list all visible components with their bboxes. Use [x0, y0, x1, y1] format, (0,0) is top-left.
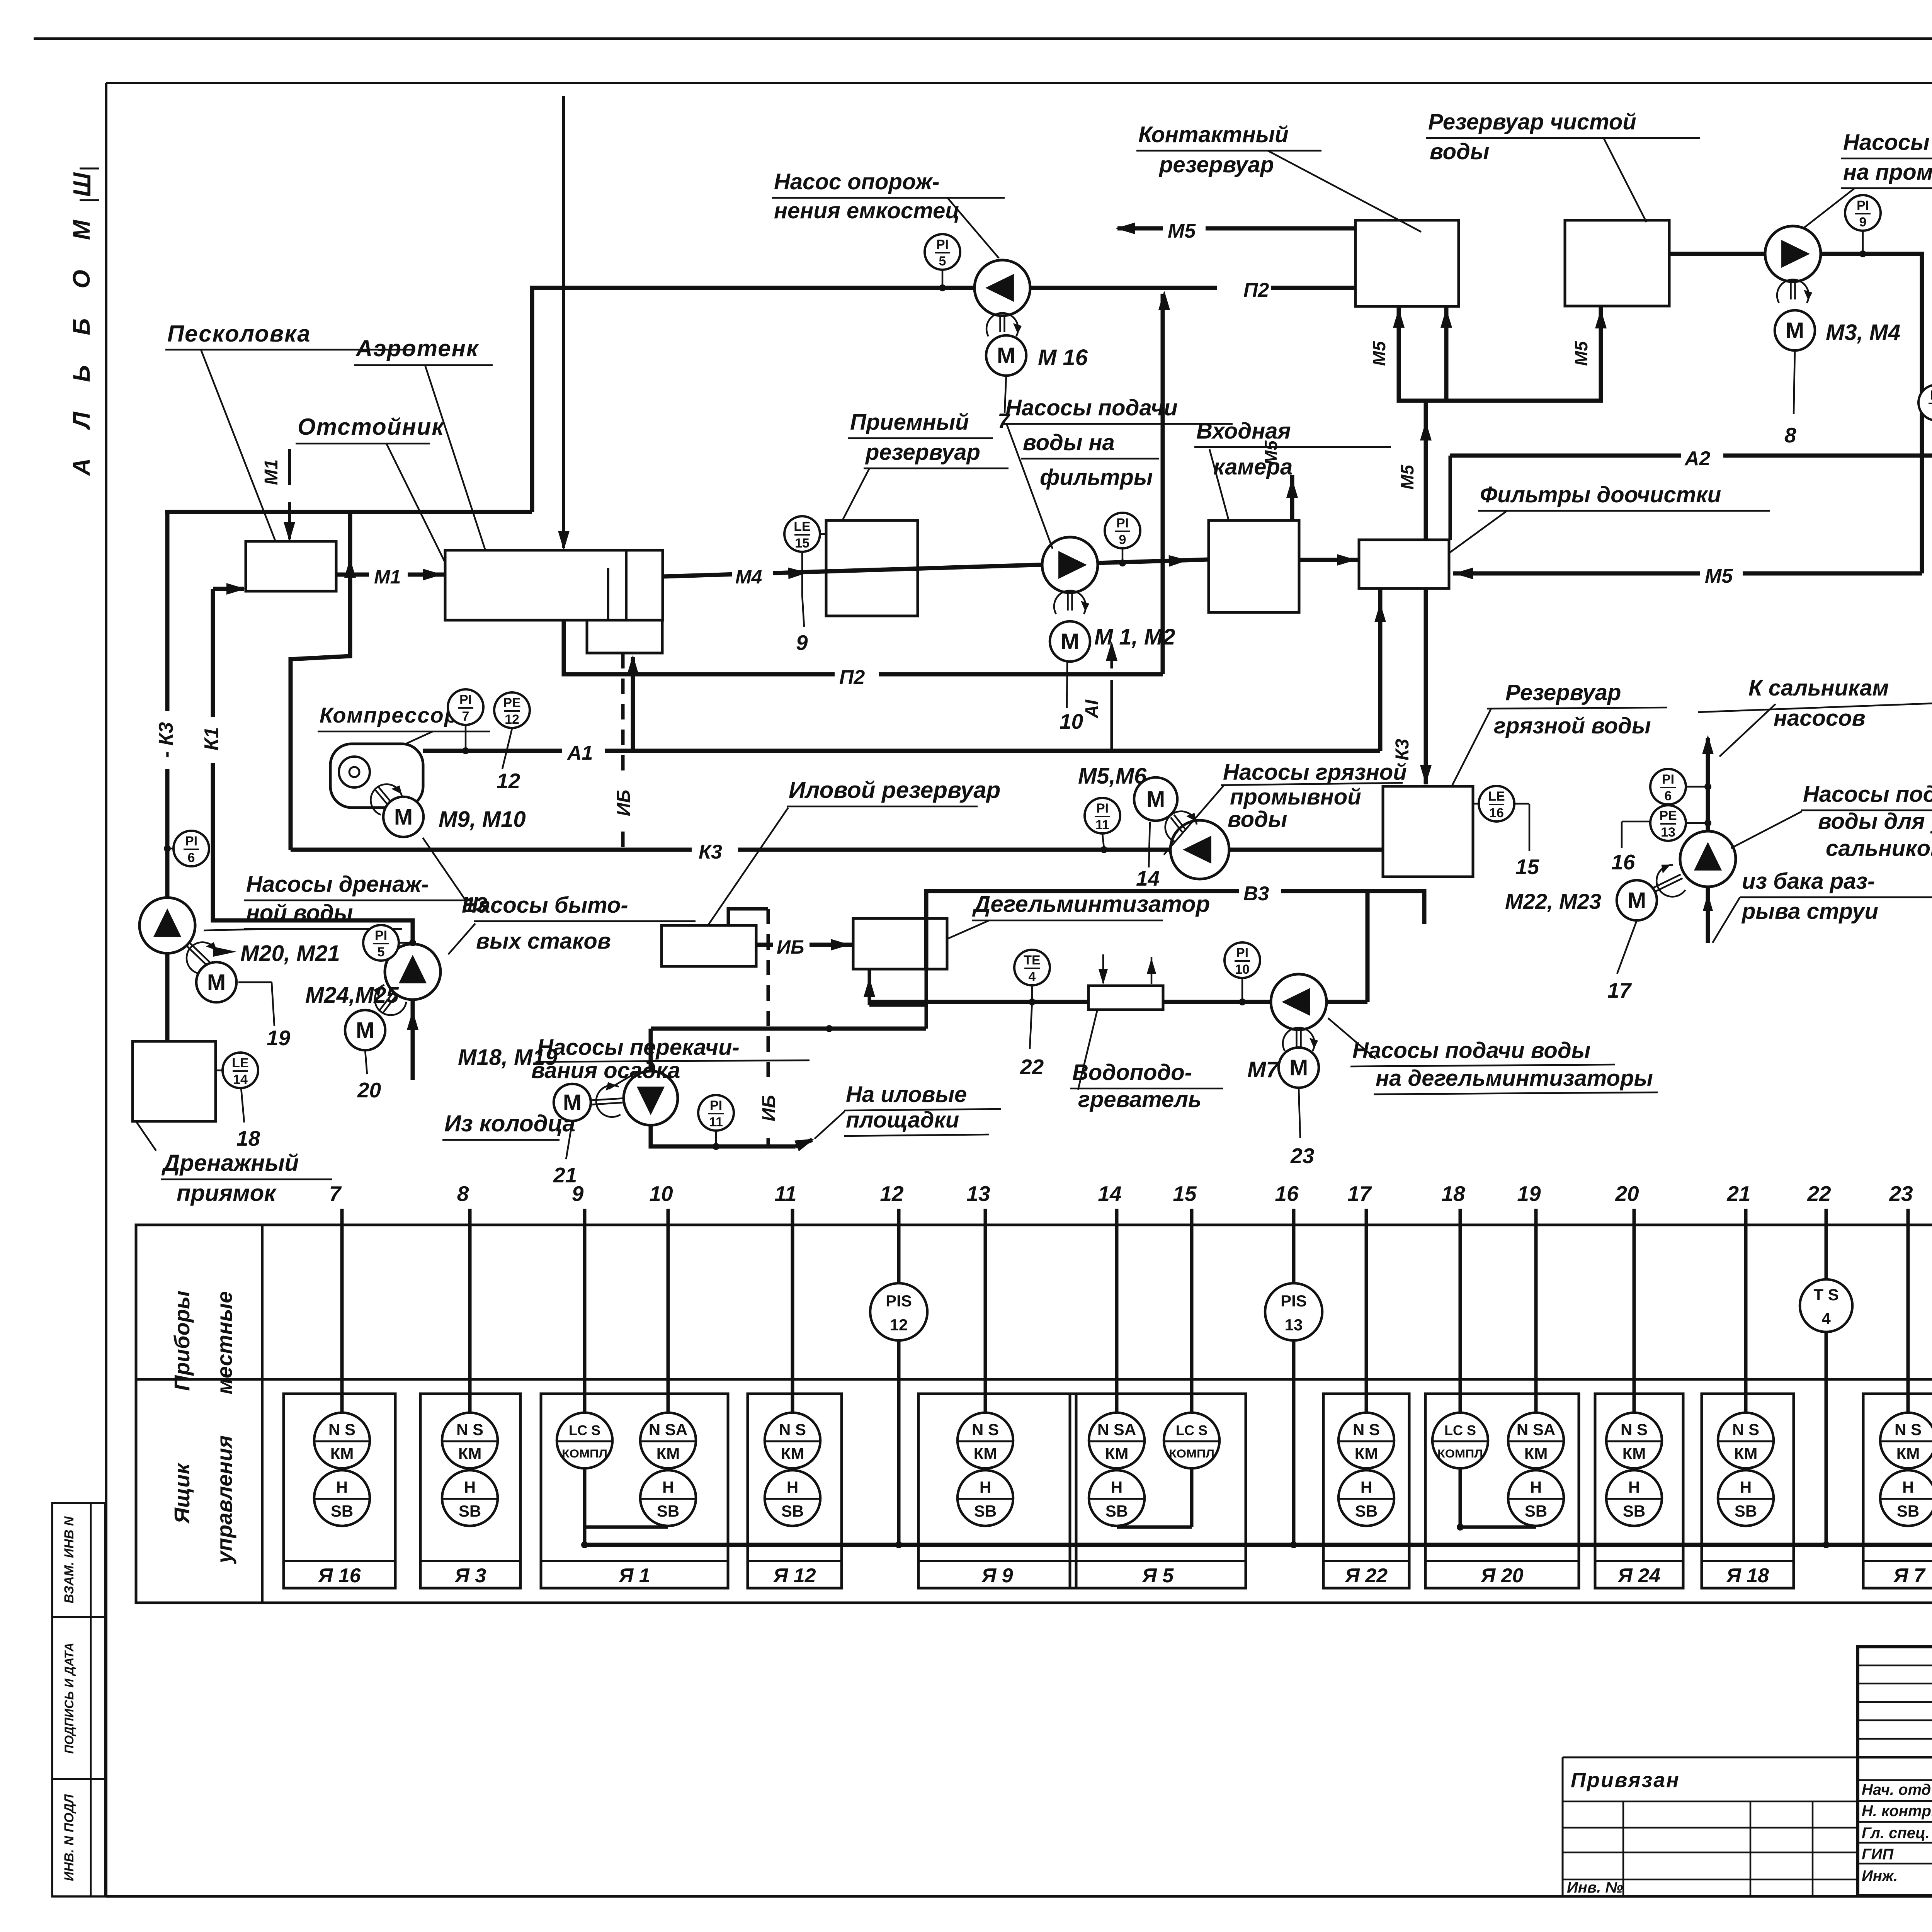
svg-text:Насосы подачи воды: Насосы подачи воды: [1843, 130, 1932, 155]
svg-text:Я 24: Я 24: [1617, 1565, 1660, 1587]
svg-text:ИНВ. N ПОДЛ: ИНВ. N ПОДЛ: [62, 1794, 77, 1881]
svg-text:Компрессор: Компрессор: [320, 703, 458, 727]
svg-text:PI: PI: [936, 237, 949, 252]
svg-text:М 16: М 16: [1038, 345, 1088, 370]
svg-text:ГИП: ГИП: [1862, 1846, 1894, 1863]
svg-text:9: 9: [1119, 532, 1126, 547]
svg-text:Н: Н: [1530, 1478, 1542, 1496]
svg-text:12: 12: [497, 769, 520, 793]
svg-text:фильтры: фильтры: [1040, 465, 1153, 490]
svg-text:М5,М6: М5,М6: [1078, 764, 1147, 789]
svg-text:воды для уплотнения: воды для уплотнения: [1818, 809, 1932, 834]
svg-text:9: 9: [796, 631, 808, 655]
svg-text:М 1, М2: М 1, М2: [1094, 624, 1175, 650]
svg-text:Н: Н: [787, 1478, 798, 1496]
svg-text:PI: PI: [459, 692, 472, 707]
svg-text:PIS: PIS: [886, 1292, 912, 1310]
svg-text:М: М: [394, 804, 413, 830]
svg-text:Я 3: Я 3: [454, 1565, 486, 1587]
svg-text:Песколовка: Песколовка: [167, 321, 311, 347]
svg-text:Н. контр.: Н. контр.: [1862, 1803, 1932, 1820]
svg-text:21: 21: [1726, 1182, 1750, 1206]
svg-text:М: М: [1786, 318, 1804, 343]
svg-text:греватель: греватель: [1078, 1087, 1201, 1112]
svg-text:М: М: [563, 1090, 582, 1115]
svg-text:М5: М5: [1705, 565, 1733, 587]
svg-text:SB: SB: [1105, 1502, 1128, 1520]
svg-text:N S: N S: [1621, 1420, 1648, 1439]
svg-text:Я 7: Я 7: [1893, 1565, 1925, 1587]
svg-text:SB: SB: [657, 1502, 679, 1520]
svg-text:Входная: Входная: [1196, 418, 1291, 444]
svg-text:SB: SB: [1897, 1502, 1919, 1520]
svg-text:Водоподо-: Водоподо-: [1072, 1060, 1192, 1085]
svg-text:Иловой резервуар: Иловой резервуар: [789, 777, 1000, 803]
svg-text:Приборы: Приборы: [170, 1291, 194, 1391]
svg-text:18: 18: [236, 1126, 260, 1150]
svg-text:Отстойник: Отстойник: [298, 414, 444, 440]
svg-text:Я 1: Я 1: [618, 1565, 650, 1587]
svg-text:15: 15: [1173, 1182, 1197, 1206]
svg-text:М: М: [1146, 787, 1165, 812]
svg-text:N SА: N SА: [649, 1420, 687, 1439]
svg-text:20: 20: [1615, 1182, 1639, 1206]
svg-text:М3, М4: М3, М4: [1826, 320, 1900, 345]
svg-text:вых стаков: вых стаков: [476, 929, 611, 954]
svg-text:М7: М7: [1247, 1057, 1279, 1082]
svg-text:местные: местные: [212, 1291, 236, 1395]
svg-text:PI: PI: [1662, 772, 1674, 787]
svg-text:Я 12: Я 12: [772, 1565, 816, 1587]
svg-text:PI: PI: [1096, 801, 1109, 816]
svg-text:LC S: LC S: [1444, 1422, 1476, 1438]
svg-text:13: 13: [1285, 1316, 1303, 1334]
svg-text:PE: PE: [1659, 808, 1677, 823]
svg-text:Н: Н: [1628, 1478, 1640, 1496]
svg-text:Гл. спец.: Гл. спец.: [1862, 1825, 1930, 1842]
svg-text:4: 4: [1821, 1310, 1831, 1328]
svg-text:SB: SB: [1525, 1502, 1547, 1520]
svg-text:КМ: КМ: [1524, 1444, 1548, 1463]
svg-text:М20, М21: М20, М21: [240, 941, 340, 966]
svg-text:9: 9: [1859, 215, 1867, 230]
svg-text:SB: SB: [1735, 1502, 1757, 1520]
svg-text:6: 6: [188, 850, 195, 865]
svg-text:11: 11: [774, 1182, 796, 1206]
svg-text:5: 5: [939, 254, 946, 269]
svg-text:М: М: [997, 343, 1015, 368]
svg-text:КОМПЛ: КОМПЛ: [1169, 1447, 1214, 1460]
svg-text:К1: К1: [201, 727, 223, 751]
svg-text:LC S: LC S: [569, 1422, 600, 1438]
svg-text:19: 19: [267, 1026, 291, 1050]
svg-text:SB: SB: [781, 1502, 804, 1520]
svg-text:Насосы подачи: Насосы подачи: [1005, 395, 1178, 420]
svg-text:П2: П2: [839, 666, 865, 689]
svg-text:Инв. №: Инв. №: [1567, 1879, 1623, 1896]
svg-text:Н: Н: [336, 1478, 348, 1496]
svg-text:N S: N S: [328, 1420, 355, 1439]
svg-text:М: М: [356, 1018, 374, 1043]
svg-text:М: М: [207, 970, 226, 995]
svg-text:П2: П2: [1243, 279, 1269, 301]
svg-text:воды: воды: [1228, 807, 1287, 832]
svg-text:КМ: КМ: [1105, 1444, 1129, 1463]
svg-text:PI: PI: [185, 834, 197, 849]
svg-text:воды на: воды на: [1023, 430, 1115, 455]
svg-text:Из колодца: Из колодца: [444, 1111, 575, 1136]
svg-text:К3: К3: [1392, 739, 1413, 761]
svg-text:М5: М5: [1397, 464, 1417, 490]
svg-text:Н: Н: [464, 1478, 476, 1496]
svg-text:Н: Н: [1361, 1478, 1372, 1496]
svg-text:14: 14: [1098, 1182, 1121, 1206]
svg-text:Я 18: Я 18: [1726, 1565, 1769, 1587]
svg-text:SB: SB: [1623, 1502, 1645, 1520]
svg-text:сальников: сальников: [1826, 836, 1932, 861]
svg-text:22: 22: [1020, 1055, 1044, 1079]
svg-text:рыва струи: рыва струи: [1741, 899, 1878, 924]
svg-text:8: 8: [1784, 423, 1796, 447]
svg-text:Фильтры доочистки: Фильтры доочистки: [1480, 482, 1721, 507]
svg-text:на дегельминтизаторы: на дегельминтизаторы: [1376, 1066, 1653, 1091]
svg-text:Я 9: Я 9: [981, 1565, 1013, 1587]
svg-text:18: 18: [1441, 1182, 1465, 1206]
svg-text:резервуар: резервуар: [865, 440, 980, 465]
svg-text:17: 17: [1347, 1182, 1372, 1206]
svg-text:площадки: площадки: [846, 1107, 959, 1133]
svg-text:А Л Ь Б О М: А Л Ь Б О М: [68, 208, 95, 476]
svg-text:Аэротенк: Аэротенк: [355, 335, 479, 361]
svg-text:КМ: КМ: [458, 1444, 482, 1463]
svg-text:16: 16: [1611, 850, 1635, 874]
svg-text:КОМПЛ: КОМПЛ: [1437, 1447, 1483, 1460]
svg-text:14: 14: [1136, 866, 1160, 890]
svg-text:К3: К3: [699, 841, 722, 863]
svg-text:КМ: КМ: [1622, 1444, 1646, 1463]
svg-text:КОМПЛ: КОМПЛ: [562, 1447, 607, 1460]
svg-text:Насосы грязной: Насосы грязной: [1223, 760, 1407, 785]
svg-text:Я 20: Я 20: [1480, 1565, 1523, 1587]
svg-text:К сальникам: К сальникам: [1748, 675, 1889, 701]
svg-text:М1: М1: [374, 566, 401, 588]
svg-text:TE: TE: [1024, 953, 1040, 968]
svg-text:10: 10: [1060, 709, 1083, 733]
svg-text:16: 16: [1275, 1182, 1299, 1206]
svg-text:М22, М23: М22, М23: [1505, 889, 1601, 913]
svg-text:М4: М4: [735, 566, 762, 588]
svg-text:23: 23: [1889, 1182, 1913, 1206]
svg-text:PI: PI: [710, 1098, 722, 1113]
svg-text:LE: LE: [232, 1056, 248, 1070]
svg-text:PI: PI: [1857, 198, 1869, 213]
svg-text:17: 17: [1607, 978, 1632, 1002]
svg-text:20: 20: [357, 1078, 381, 1102]
svg-text:Дренажный: Дренажный: [161, 1150, 299, 1176]
svg-text:23: 23: [1290, 1144, 1314, 1168]
svg-text:М5: М5: [1571, 341, 1591, 366]
svg-text:5: 5: [378, 945, 385, 959]
svg-text:- К3: - К3: [155, 722, 177, 758]
svg-text:Я 16: Я 16: [317, 1565, 361, 1587]
svg-text:ПОДПИСЬ И ДАТА: ПОДПИСЬ И ДАТА: [62, 1643, 76, 1754]
svg-text:10: 10: [1235, 962, 1250, 977]
svg-text:7: 7: [329, 1182, 342, 1206]
svg-text:PI: PI: [1930, 388, 1932, 403]
svg-text:N S: N S: [779, 1420, 806, 1439]
svg-text:8: 8: [457, 1182, 469, 1206]
svg-text:LC S: LC S: [1176, 1422, 1207, 1438]
svg-text:SB: SB: [1355, 1502, 1378, 1520]
svg-text:Я 5: Я 5: [1141, 1565, 1174, 1587]
svg-text:КМ: КМ: [330, 1444, 354, 1463]
svg-text:SB: SB: [974, 1502, 997, 1520]
svg-text:15: 15: [1515, 855, 1540, 879]
svg-text:7: 7: [462, 709, 469, 724]
svg-text:13: 13: [966, 1182, 990, 1206]
svg-text:Я 22: Я 22: [1344, 1565, 1388, 1587]
svg-text:LE: LE: [794, 519, 810, 534]
svg-text:N SА: N SА: [1097, 1420, 1136, 1439]
svg-text:10: 10: [649, 1182, 673, 1206]
svg-text:6: 6: [1665, 789, 1672, 803]
svg-text:N S: N S: [1353, 1420, 1380, 1439]
svg-text:Резервуар: Резервуар: [1505, 680, 1621, 705]
svg-text:грязной воды: грязной воды: [1494, 713, 1651, 738]
svg-text:9: 9: [572, 1182, 584, 1206]
svg-text:из бака раз-: из бака раз-: [1742, 869, 1875, 894]
svg-text:N S: N S: [456, 1420, 483, 1439]
svg-text:11: 11: [1095, 818, 1109, 832]
svg-text:SB: SB: [331, 1502, 353, 1520]
svg-text:ИБ: ИБ: [759, 1095, 779, 1122]
svg-text:промывной: промывной: [1230, 784, 1361, 810]
svg-text:Насосы подачи: Насосы подачи: [1803, 782, 1932, 807]
svg-text:М: М: [1628, 888, 1646, 913]
svg-text:КМ: КМ: [974, 1444, 997, 1463]
svg-text:Привязан: Привязан: [1571, 1769, 1680, 1792]
svg-text:Ш: Ш: [68, 172, 96, 197]
svg-text:Ящик: Ящик: [170, 1462, 194, 1524]
svg-text:В3: В3: [1243, 883, 1269, 905]
svg-text:N S: N S: [972, 1420, 999, 1439]
svg-text:ИБ: ИБ: [614, 790, 634, 816]
svg-text:КМ: КМ: [781, 1444, 804, 1463]
svg-text:на промывку фильтров: на промывку фильтров: [1843, 160, 1932, 185]
svg-text:Насос опорож-: Насос опорож-: [774, 169, 940, 194]
svg-text:4: 4: [1029, 969, 1036, 984]
svg-text:Дегельминтизатор: Дегельминтизатор: [972, 891, 1210, 917]
svg-text:М5: М5: [1261, 440, 1281, 465]
svg-text:Контактный: Контактный: [1138, 122, 1289, 147]
svg-text:Нач. отд: Нач. отд: [1862, 1781, 1931, 1798]
svg-text:LE: LE: [1488, 789, 1505, 804]
svg-text:Насосы перекачи-: Насосы перекачи-: [537, 1035, 740, 1060]
svg-text:16: 16: [1489, 806, 1504, 820]
svg-text:Инж.: Инж.: [1862, 1867, 1898, 1884]
svg-text:13: 13: [1661, 825, 1675, 840]
svg-text:ВЗАМ. ИНВ N: ВЗАМ. ИНВ N: [62, 1516, 77, 1603]
svg-text:приямок: приямок: [177, 1180, 277, 1206]
svg-text:КМ: КМ: [656, 1444, 680, 1463]
svg-text:15: 15: [795, 536, 810, 551]
svg-text:М5: М5: [1369, 341, 1389, 366]
svg-text:19: 19: [1517, 1182, 1541, 1206]
svg-text:Резервуар чистой: Резервуар чистой: [1428, 109, 1636, 134]
svg-text:T S: T S: [1813, 1286, 1838, 1304]
svg-text:Н: Н: [1740, 1478, 1752, 1496]
svg-text:ИБ: ИБ: [777, 936, 804, 958]
svg-text:Приемный: Приемный: [850, 410, 969, 435]
svg-text:М: М: [1289, 1055, 1308, 1080]
svg-text:А1: А1: [566, 742, 593, 764]
svg-text:N SА: N SА: [1517, 1420, 1555, 1439]
svg-text:КМ: КМ: [1896, 1444, 1920, 1463]
svg-text:PIS: PIS: [1281, 1292, 1307, 1310]
svg-text:Насосы дренаж-: Насосы дренаж-: [246, 872, 429, 897]
svg-text:Н: Н: [1902, 1478, 1914, 1496]
svg-text:Насосы подачи воды: Насосы подачи воды: [1352, 1038, 1590, 1063]
svg-text:11: 11: [709, 1115, 723, 1129]
svg-text:PI: PI: [375, 928, 387, 943]
svg-text:22: 22: [1807, 1182, 1831, 1206]
svg-text:N S: N S: [1732, 1420, 1759, 1439]
svg-text:ной воды: ной воды: [246, 900, 353, 925]
svg-text:PE: PE: [503, 696, 520, 710]
svg-text:АI: АI: [1082, 699, 1102, 719]
svg-text:А2: А2: [1684, 447, 1711, 470]
svg-text:Н: Н: [1111, 1478, 1122, 1496]
svg-text:М5: М5: [1168, 220, 1196, 242]
svg-text:14: 14: [233, 1072, 248, 1087]
svg-text:Н: Н: [662, 1478, 674, 1496]
svg-text:N S: N S: [1895, 1420, 1922, 1439]
svg-text:12: 12: [880, 1182, 904, 1206]
svg-text:КМ: КМ: [1734, 1444, 1758, 1463]
svg-text:насосов: насосов: [1774, 706, 1866, 731]
svg-text:Насосы быто-: Насосы быто-: [462, 893, 628, 918]
svg-text:М9, М10: М9, М10: [439, 807, 526, 832]
svg-text:PI: PI: [1116, 516, 1129, 531]
svg-text:Н: Н: [980, 1478, 991, 1496]
svg-text:управления: управления: [212, 1435, 236, 1565]
svg-text:SB: SB: [459, 1502, 481, 1520]
svg-text:PI: PI: [1236, 946, 1248, 960]
svg-text:резервуар: резервуар: [1158, 152, 1274, 177]
svg-text:М: М: [1061, 629, 1079, 654]
svg-text:М1: М1: [261, 459, 282, 485]
svg-text:воды: воды: [1430, 139, 1489, 164]
svg-text:12: 12: [505, 712, 519, 727]
svg-text:На иловые: На иловые: [846, 1082, 967, 1107]
svg-text:М18, М19: М18, М19: [458, 1045, 558, 1070]
svg-text:нения емкостец: нения емкостец: [774, 198, 960, 223]
svg-text:М24,М25: М24,М25: [305, 983, 399, 1008]
svg-text:12: 12: [890, 1316, 908, 1334]
svg-text:КМ: КМ: [1355, 1444, 1378, 1463]
